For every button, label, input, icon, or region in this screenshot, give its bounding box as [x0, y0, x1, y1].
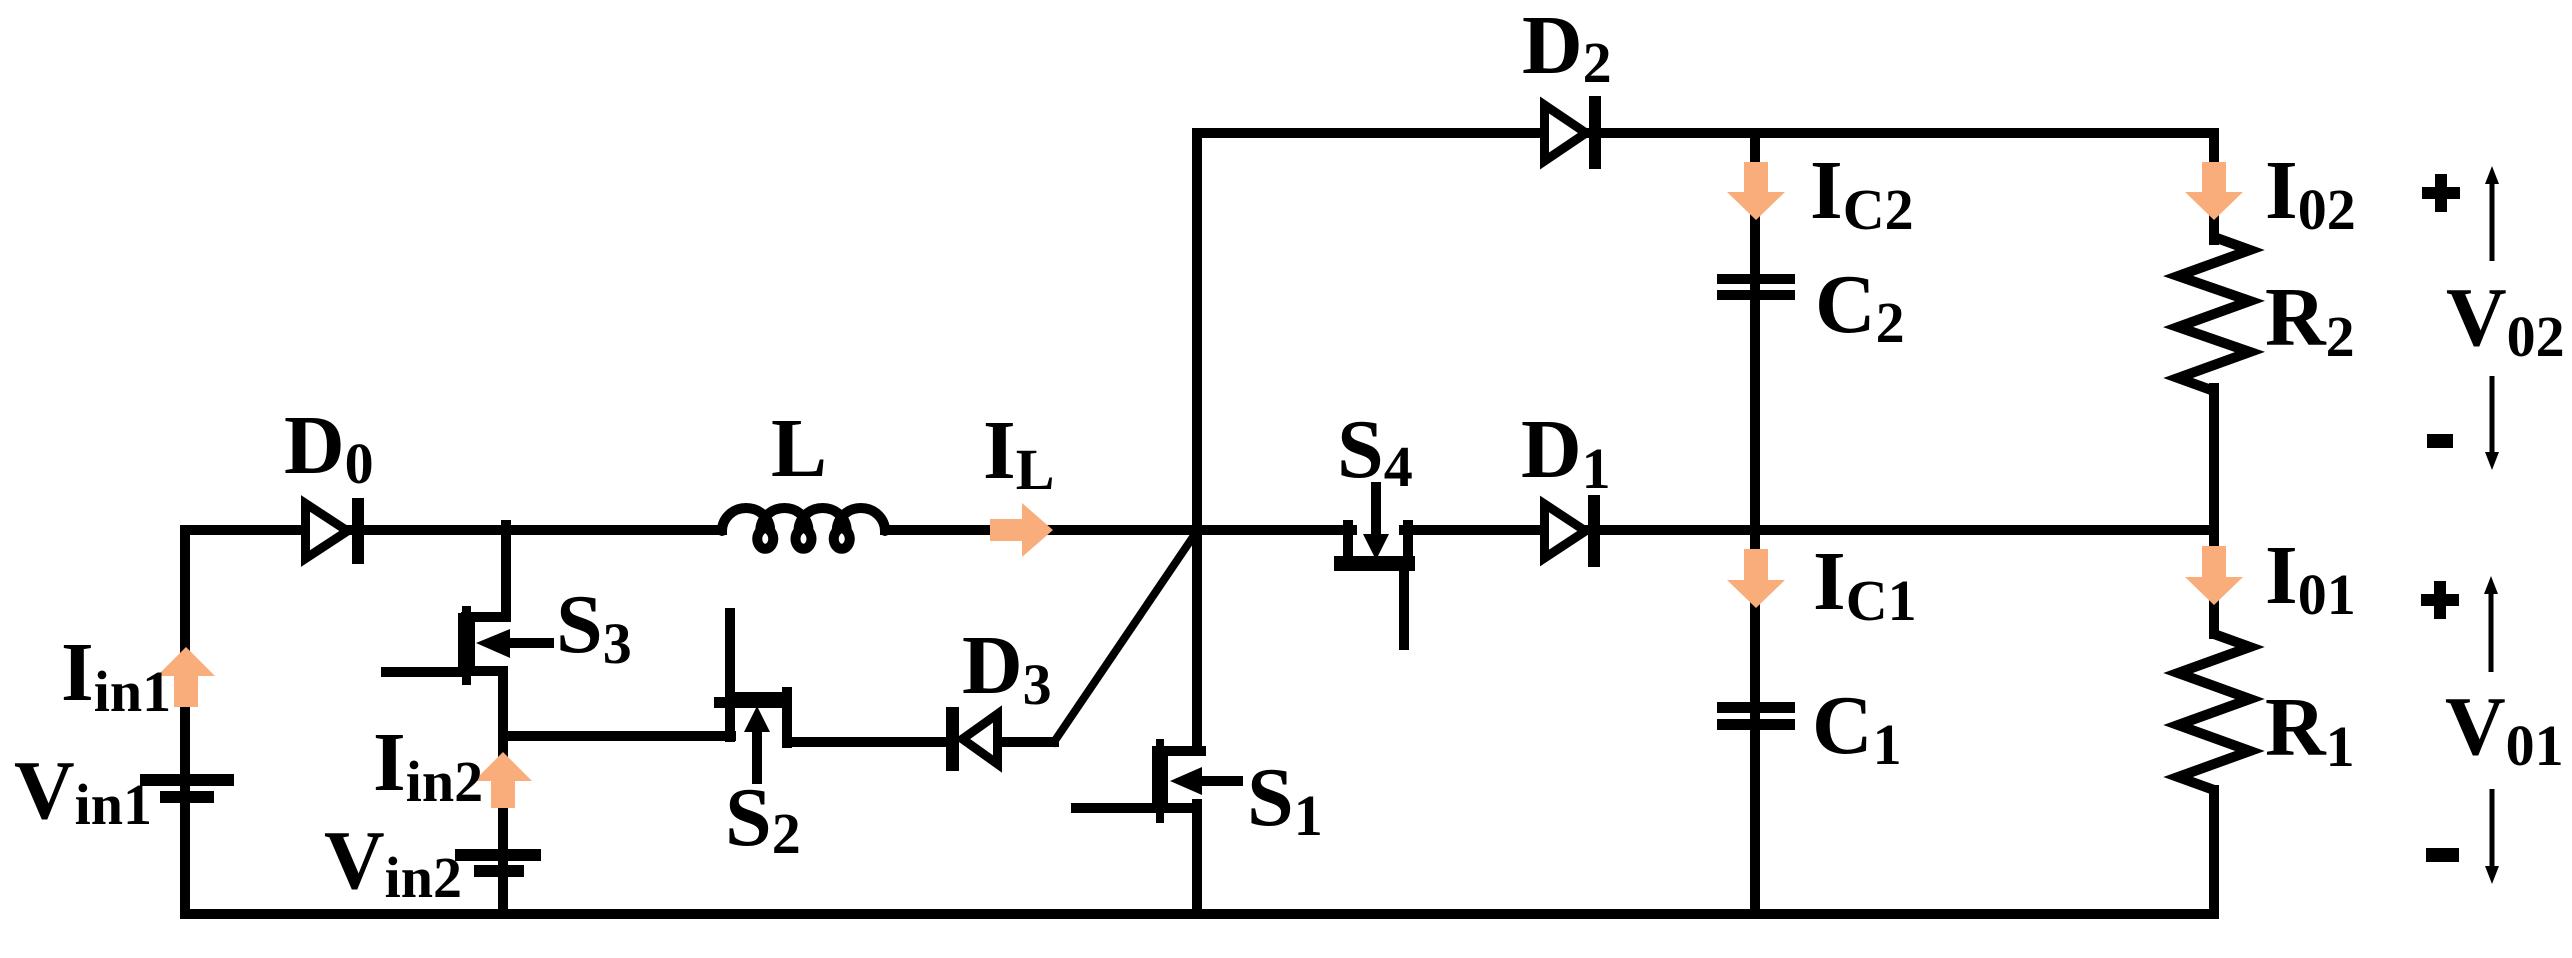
- wire S3 source lead: [466, 671, 503, 736]
- current arrow IC2: [1744, 162, 1768, 194]
- svg-text:Vin2: Vin2: [324, 814, 462, 910]
- svg-text:D1: D1: [1521, 403, 1611, 501]
- svg-text:IC2: IC2: [1810, 144, 1914, 242]
- wire S4 gate line: [1371, 487, 1381, 534]
- wire left rail: [180, 530, 190, 914]
- V01 minus sign: [2426, 848, 2459, 862]
- V02 up arrow: [2490, 180, 2495, 261]
- wire input top segment: [185, 525, 722, 535]
- svg-text:Vin1: Vin1: [14, 744, 152, 837]
- wire R1 branch bottom lead: [2209, 790, 2219, 914]
- svg-text:D3: D3: [962, 619, 1052, 717]
- wire top rail: [1197, 128, 2214, 138]
- svg-text:C2: C2: [1815, 258, 1905, 355]
- wire mid rail right segment B: [1404, 525, 2214, 535]
- diode D1: [1545, 504, 1586, 558]
- svg-text:V01: V01: [2445, 680, 2564, 778]
- switch S3 arrow: [476, 629, 510, 658]
- wire S2 left leg: [725, 692, 735, 737]
- switch S2 channel bar: [733, 692, 791, 708]
- svg-text:IL: IL: [983, 404, 1054, 502]
- svg-text:I01: I01: [2265, 529, 2356, 627]
- wire Vin2 branch: [498, 736, 508, 914]
- svg-text:Iin2: Iin2: [373, 716, 483, 814]
- switch S4 channel bar: [1334, 556, 1415, 571]
- svg-text:R2: R2: [2265, 271, 2355, 369]
- svg-text:I02: I02: [2265, 144, 2356, 242]
- svg-text:IC1: IC1: [1813, 535, 1917, 633]
- wire C branch vertical: [1750, 133, 1760, 914]
- switch S2 arrow: [744, 706, 770, 732]
- switch S1 arrow: [1170, 767, 1202, 795]
- current arrow Iin2: [491, 780, 515, 808]
- wire S1 drain lead: [1157, 746, 1201, 756]
- current arrow IL: [990, 519, 1022, 541]
- svg-text:C1: C1: [1812, 679, 1902, 777]
- wire center rail upper: [1192, 133, 1202, 751]
- V01 up arrow: [2489, 591, 2494, 672]
- V01 down arrow: [2490, 789, 2495, 866]
- switch S1 channel bar: [1152, 750, 1168, 812]
- diode D2: [1545, 105, 1587, 161]
- V02 down arrow: [2490, 376, 2495, 453]
- svg-text:V02: V02: [2446, 271, 2565, 369]
- wire D0 node vertical: [466, 525, 506, 617]
- V02 plus sign: [2422, 187, 2460, 199]
- capacitor C2 plates: [1717, 274, 1795, 284]
- capacitor C1 plates: [1717, 702, 1795, 713]
- switch S3 channel bar: [458, 613, 475, 671]
- wire R1 branch top lead: [2209, 530, 2219, 634]
- svg-text:Iin1: Iin1: [61, 626, 171, 724]
- current arrow Iin1: [174, 675, 198, 707]
- battery Vin2 long plate: [455, 849, 541, 861]
- wire S3 arrow lead: [505, 638, 549, 648]
- wire S2 right leg: [782, 692, 792, 743]
- wire bottom rail: [185, 909, 2214, 919]
- switch S4 gate arrow head: [1363, 534, 1389, 560]
- wire S2 to D3: [787, 737, 950, 747]
- wire S3 to S2: [503, 731, 731, 741]
- battery Vin2 short plate: [474, 865, 524, 877]
- wire R2 branch top lead: [2209, 134, 2219, 240]
- wire S4 left leg: [1343, 525, 1353, 560]
- wire S2 gate: [725, 613, 735, 696]
- wire S1 gate-source lead: [1076, 804, 1197, 914]
- resistor R1: [2178, 634, 2250, 790]
- battery Vin1 short plate: [160, 791, 214, 803]
- svg-text:D2: D2: [1522, 0, 1612, 95]
- V01 plus sign: [2421, 594, 2459, 606]
- svg-text:S1: S1: [1247, 751, 1323, 848]
- battery Vin1 long plate: [140, 774, 234, 786]
- diode D3: [963, 714, 998, 764]
- wire mid rail right segment A: [1197, 525, 1352, 535]
- inductor L: [722, 508, 885, 549]
- wire diagonal D3 to junction: [1054, 531, 1197, 742]
- current arrow IC1: [1744, 549, 1768, 581]
- current arrow I01: [2202, 546, 2226, 578]
- svg-text:L: L: [771, 402, 827, 495]
- wire D3 anode lead: [1002, 737, 1054, 747]
- wire R2 branch bottom lead: [2209, 388, 2219, 530]
- resistor R2: [2178, 237, 2250, 391]
- wire S1 gate arrow lead: [1200, 776, 1238, 786]
- wire mid rail left of junction: [885, 525, 1197, 535]
- V02 minus sign: [2427, 434, 2453, 448]
- wire center rail lower: [1192, 806, 1202, 914]
- current arrow I02: [2202, 162, 2226, 194]
- svg-text:R1: R1: [2265, 681, 2355, 779]
- wire S3 gate lead: [386, 667, 462, 677]
- diode D0: [306, 504, 348, 559]
- svg-text:S3: S3: [556, 578, 632, 676]
- wire S4 source stub: [1399, 566, 1409, 645]
- svg-text:S4: S4: [1337, 403, 1413, 499]
- wire S4 right leg: [1403, 525, 1413, 560]
- svg-text:D0: D0: [284, 399, 374, 496]
- wire S2 arrow stem: [752, 730, 762, 779]
- svg-text:S2: S2: [725, 771, 801, 866]
